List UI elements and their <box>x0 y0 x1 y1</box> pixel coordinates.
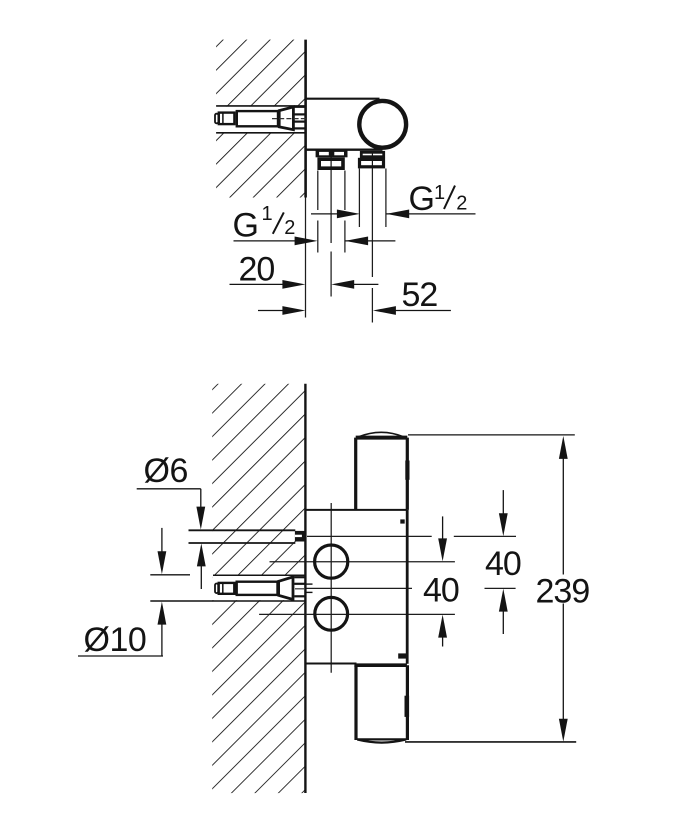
svg-text:20: 20 <box>239 251 275 289</box>
wall hatch (top view) <box>216 40 305 198</box>
body outline (top view) <box>306 98 380 100</box>
dimension Ø10 (bottom view) <box>78 528 166 659</box>
svg-text:40: 40 <box>423 572 459 610</box>
svg-text:1: 1 <box>262 203 273 225</box>
svg-text:G: G <box>409 180 435 218</box>
wall face line (bottom view) <box>304 384 306 793</box>
wall plate (bottom view) <box>306 509 407 511</box>
svg-text:2: 2 <box>284 217 295 239</box>
svg-text:1: 1 <box>434 182 445 204</box>
wall hole band (top view) <box>215 107 305 132</box>
hole / extension lines at screw (bottom view) <box>150 574 190 576</box>
svg-text:Ø6: Ø6 <box>144 452 188 490</box>
center/extension horizontals (bottom view) <box>259 503 516 673</box>
dimension 239 (bottom view) <box>405 435 589 742</box>
wall face line (top view) <box>304 40 307 198</box>
dimension 20 (top view) <box>230 251 379 289</box>
svg-text:40: 40 <box>485 545 521 583</box>
anchor screw (top view) <box>215 107 306 130</box>
extension lines (top view) <box>306 169 386 323</box>
dimension Ø6 (bottom view) <box>137 452 206 589</box>
svg-text:239: 239 <box>536 573 590 611</box>
dimension G1/2 right (top view) <box>311 180 476 219</box>
supply screw (bottom view) <box>215 577 313 600</box>
handle circles (bottom view) <box>315 545 348 578</box>
screw center line (top view) <box>272 118 307 120</box>
Ø6 pipe connector (bottom view) <box>295 531 305 542</box>
svg-text:2: 2 <box>456 193 467 215</box>
dimension 40 middle (bottom view) <box>423 516 459 646</box>
dimension 40 right (bottom view) <box>485 490 521 634</box>
right pipe fitting (top view) <box>360 152 384 169</box>
handle circle (top view) <box>359 101 406 148</box>
left pipe fitting (top view) <box>316 150 348 170</box>
svg-text:G: G <box>233 207 259 245</box>
svg-text:52: 52 <box>402 276 438 314</box>
svg-text:Ø10: Ø10 <box>84 621 147 659</box>
upper cylinder (bottom view) <box>358 432 404 437</box>
Ø6 pipe (bottom view) <box>189 529 296 531</box>
dimension 52 (top view) <box>258 276 451 315</box>
dimension G1/2 left (top view) <box>233 203 396 246</box>
wall hatch (bottom view) <box>212 384 305 793</box>
wall hole band for screw (bottom view) <box>212 576 305 600</box>
lower cylinder (bottom view) <box>354 663 407 667</box>
